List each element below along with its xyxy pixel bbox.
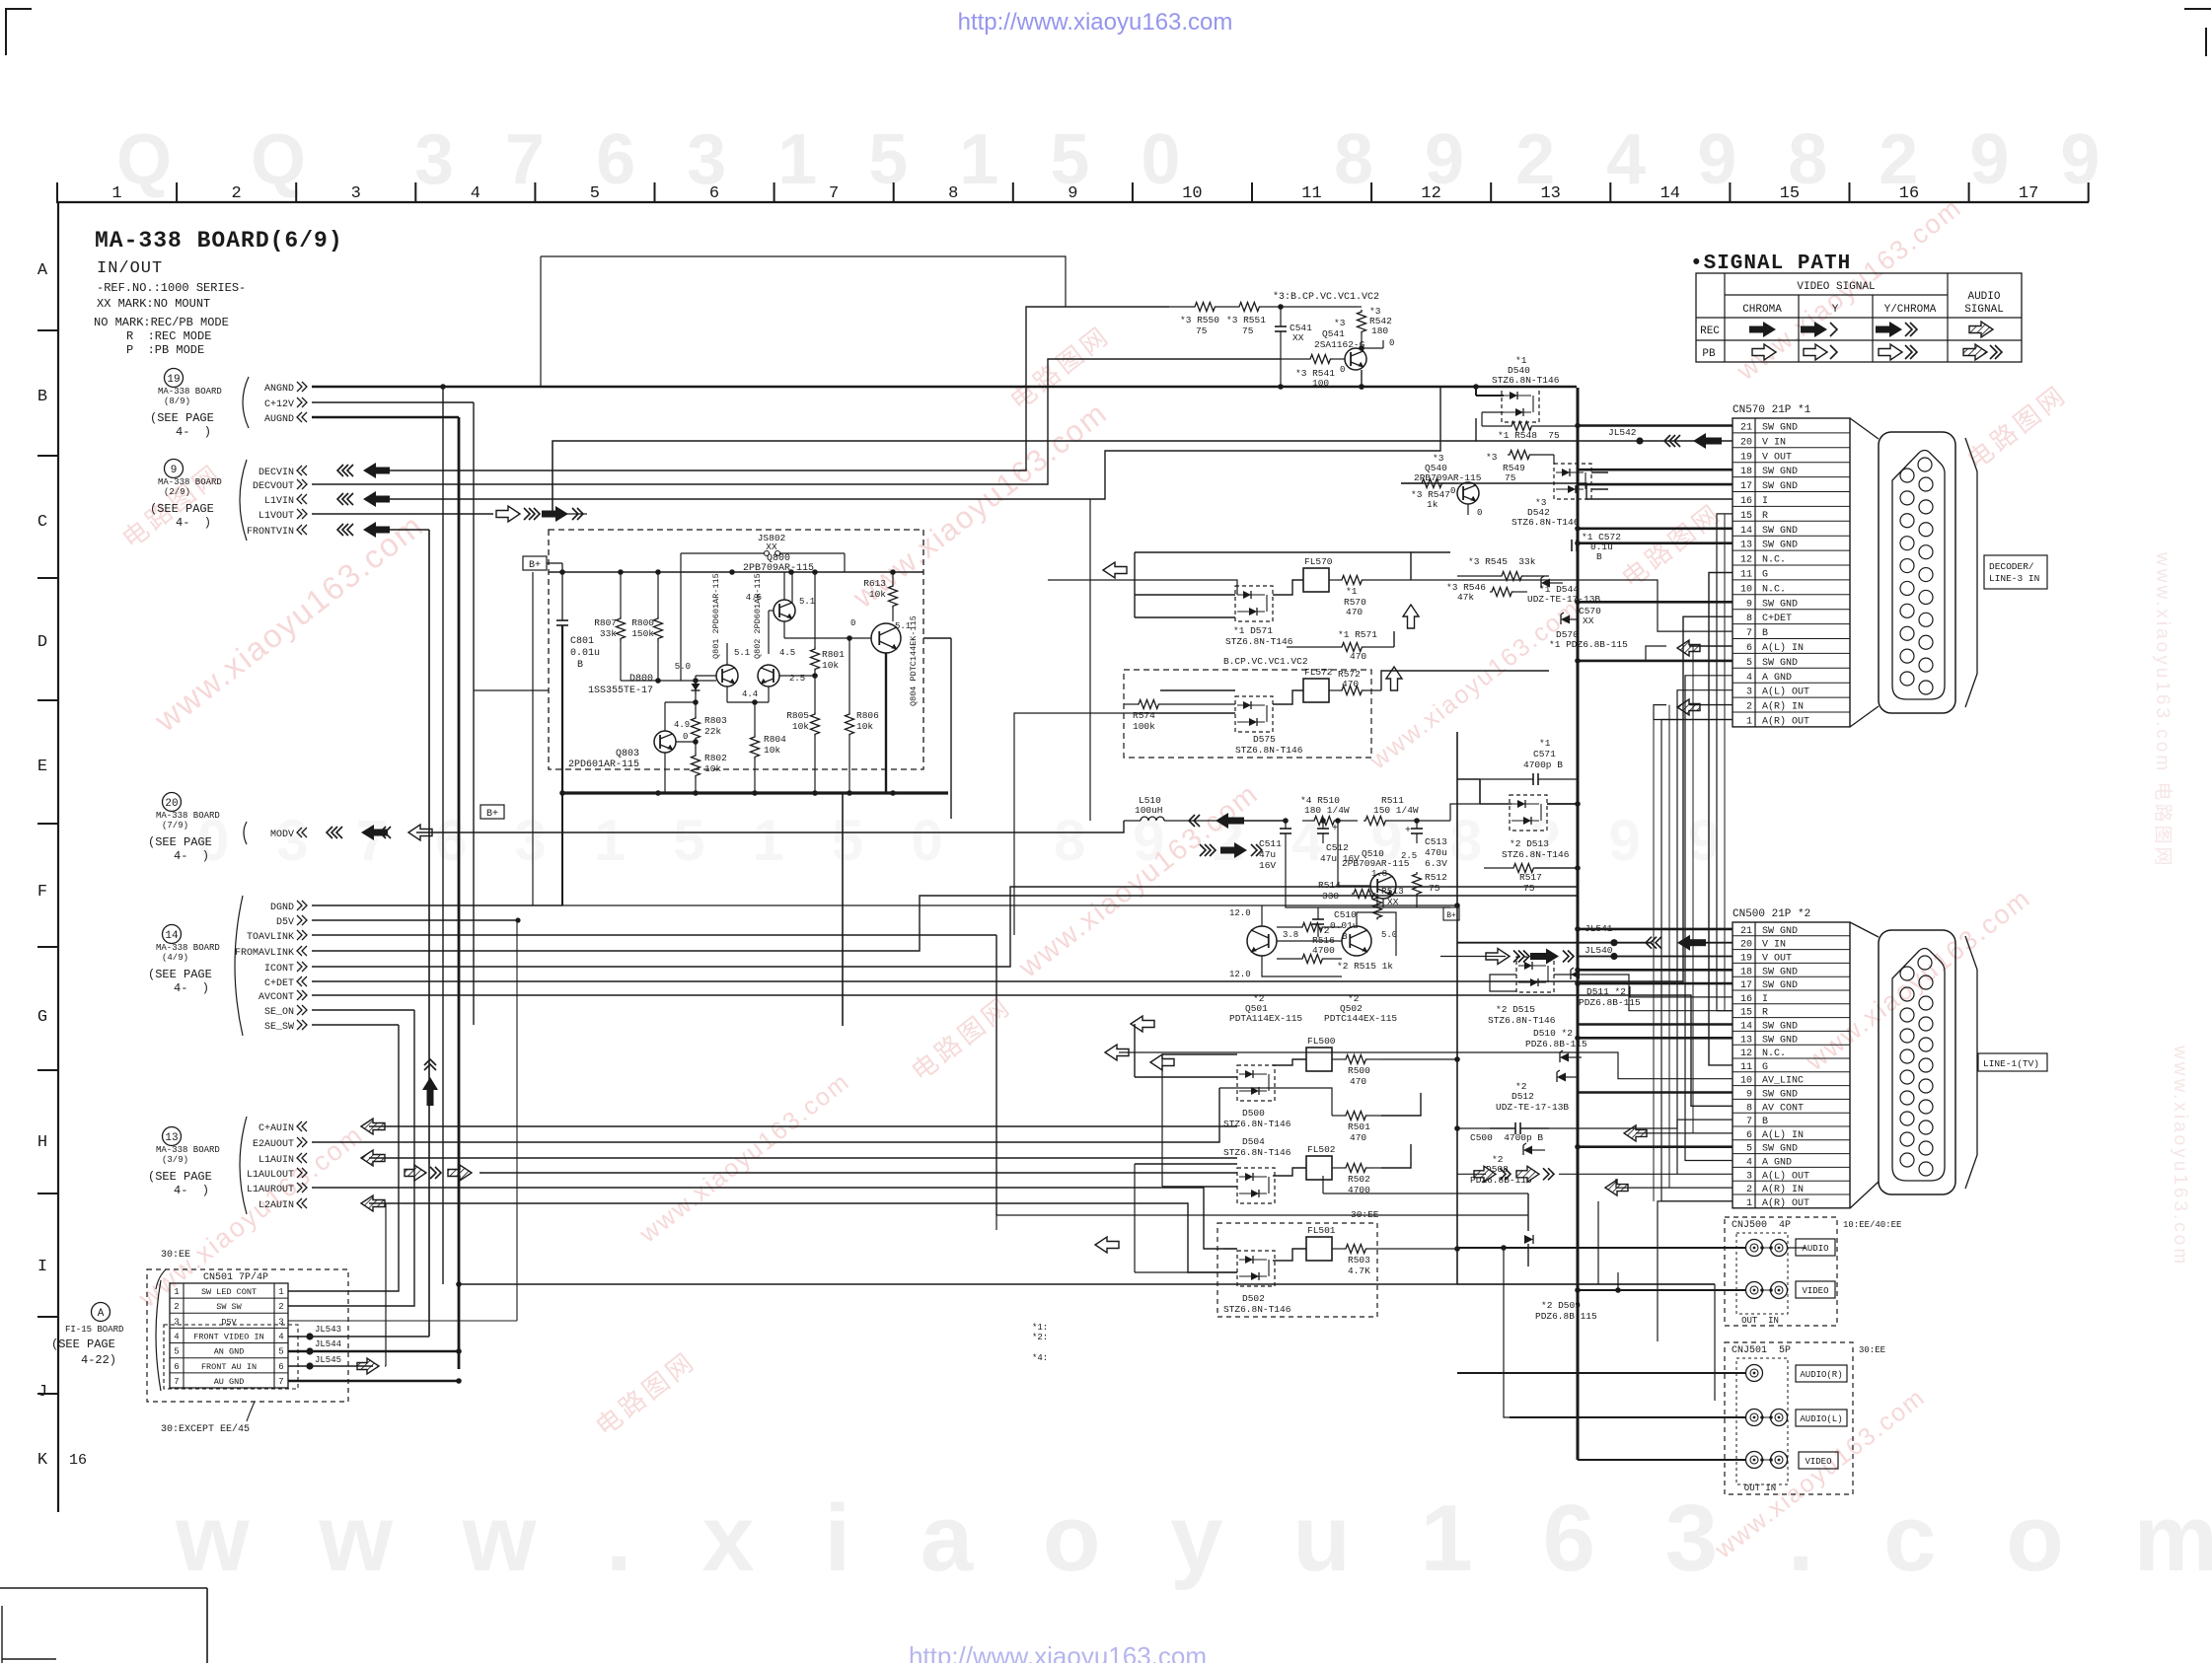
wire D513 right (1547, 803, 1578, 805)
svg-text:(SEE PAGE: (SEE PAGE (150, 502, 214, 516)
node ANGND (264, 382, 307, 395)
wire hatch arrow ARIN500 (1605, 1180, 1628, 1195)
node Q541 label (1314, 318, 1365, 350)
svg-text:SW GND: SW GND (1762, 541, 1798, 551)
transistor Q540 (1457, 482, 1482, 518)
wire Q510 em (1382, 899, 1384, 907)
transistor Q803 (568, 731, 676, 770)
wire CN570 stub 491.1 (1578, 483, 1733, 486)
svg-text:http://www.xiaoyu163.com: http://www.xiaoyu163.com (958, 9, 1233, 36)
svg-text:E2AUOUT: E2AUOUT (253, 1139, 294, 1150)
svg-text:FI-15 BOARD: FI-15 BOARD (65, 1325, 123, 1335)
wire FL501 in2 (1135, 1271, 1237, 1273)
svg-text:SE_ON: SE_ON (264, 1007, 294, 1018)
capacitor C512 (1317, 821, 1360, 864)
svg-text:B: B (1596, 551, 1602, 562)
svg-text:SW GND: SW GND (1762, 599, 1798, 610)
svg-text:5: 5 (174, 1347, 179, 1357)
resistor R515 (1277, 955, 1342, 964)
wire R501 line (1219, 1088, 1332, 1116)
wire Q510 base in (1338, 821, 1370, 886)
wire v x854 (842, 793, 844, 1026)
svg-text:D504: D504 (1242, 1136, 1265, 1147)
wire CN570 stub 431.5 (1578, 424, 1733, 427)
svg-text:STZ6.8N-T146: STZ6.8N-T146 (1235, 745, 1303, 756)
svg-text:C+DET: C+DET (1762, 614, 1792, 624)
svg-text:SW LED CONT: SW LED CONT (201, 1287, 257, 1297)
svg-text:1SS355TE-17: 1SS355TE-17 (588, 686, 653, 696)
svg-text:17: 17 (1740, 980, 1752, 991)
inductor L510 (1124, 795, 1223, 821)
wire CNJ bus drop1 (1504, 1248, 1510, 1417)
wire CN500 SWGND5 link (1457, 1127, 1490, 1129)
svg-text:75: 75 (1505, 472, 1516, 483)
node group 13 header (148, 1127, 220, 1198)
resistor R542 (1358, 306, 1393, 351)
wire FL572 in2 (1135, 712, 1235, 714)
svg-text:C+DET: C+DET (264, 978, 294, 989)
svg-text:FRONT VIDEO IN: FRONT VIDEO IN (193, 1333, 263, 1342)
node L1AUROUT (247, 1183, 307, 1195)
svg-text:2PD601AR-115: 2PD601AR-115 (568, 759, 639, 770)
node group 20 header (148, 793, 220, 864)
wire FL501 link (1273, 1249, 1306, 1261)
svg-text:*3: *3 (1334, 318, 1346, 328)
svg-text:100k: 100k (1133, 721, 1155, 732)
svg-text:JL545: JL545 (315, 1355, 341, 1365)
svg-text:w w w . x i a o y u 1 6 3 . c: w w w . x i a o y u 1 6 3 . c o m (175, 1485, 2212, 1591)
svg-text:12: 12 (1421, 184, 1440, 203)
svg-text:30:EXCEPT EE/45: 30:EXCEPT EE/45 (161, 1423, 250, 1435)
svg-text:5: 5 (278, 1347, 283, 1357)
wire R501 out (1381, 1093, 1421, 1116)
wire CN500 ALOUT left (1457, 1173, 1486, 1175)
svg-text:NO MARK:REC/PB MODE: NO MARK:REC/PB MODE (94, 316, 229, 329)
node left ruler (37, 202, 58, 1512)
wire CN500 ARIN left (1578, 1171, 1593, 1173)
svg-text:L1AUROUT: L1AUROUT (247, 1185, 294, 1195)
svg-text:180 1/4W: 180 1/4W (1304, 805, 1350, 816)
node bracket 9 (240, 460, 247, 541)
wire FL572 in1 (1160, 689, 1235, 691)
svg-text:*1 R548 75: *1 R548 75 (1498, 430, 1560, 441)
svg-text:22k: 22k (704, 726, 721, 737)
svg-text:15: 15 (1780, 184, 1800, 203)
svg-text:(SEE PAGE: (SEE PAGE (148, 835, 212, 849)
wire CN500 ALOUT stub (1559, 1173, 1733, 1175)
svg-text:C510: C510 (1334, 909, 1357, 920)
node corner marks (5, 9, 2211, 56)
svg-text:10k: 10k (822, 660, 839, 671)
svg-text:(8/9): (8/9) (164, 397, 190, 406)
svg-text:*2 D509: *2 D509 (1541, 1300, 1581, 1311)
filter FL500 (1306, 1036, 1336, 1071)
svg-text:10: 10 (1740, 1076, 1752, 1087)
svg-text:8 9 2 4 9 8 2 9 9: 8 9 2 4 9 8 2 9 9 (1334, 120, 2115, 199)
wire JL542 line (553, 418, 1476, 514)
wire CN500 V OUT stub (1578, 956, 1733, 958)
svg-text:C801: C801 (570, 636, 594, 647)
node C+DET (264, 976, 307, 989)
connector CN501 (147, 1250, 348, 1435)
svg-text:A(L) IN: A(L) IN (1762, 1129, 1804, 1141)
svg-text:0: 0 (1477, 508, 1482, 518)
svg-text:V OUT: V OUT (1762, 452, 1792, 463)
wire inter vert 2 (1653, 720, 1655, 1201)
svg-text:19: 19 (167, 374, 180, 386)
wire L1VIN arrow (337, 491, 390, 507)
wire v x548 link (540, 256, 542, 387)
svg-text:SIGNAL: SIGNAL (1964, 304, 2004, 316)
wire CN500 stub 1038.5 (1578, 1023, 1733, 1026)
wire FRONTVIN arrow (337, 522, 390, 538)
wire CN500 ARIN stub (1616, 1179, 1733, 1188)
svg-text:R613: R613 (863, 578, 886, 589)
svg-text:12.0: 12.0 (1229, 908, 1251, 918)
svg-text:30:EE: 30:EE (1859, 1345, 1885, 1355)
svg-text:FL570: FL570 (1304, 556, 1333, 567)
wire B gnd down (561, 793, 563, 819)
wire x1010 trunk (995, 935, 997, 1215)
svg-text:6.3V: 6.3V (1425, 858, 1447, 869)
svg-text:1: 1 (174, 1287, 179, 1297)
wire inter vert 1 (1668, 705, 1670, 1189)
svg-text:VIDEO SIGNAL: VIDEO SIGNAL (1797, 281, 1875, 293)
wire vert x1150 c (1134, 1164, 1136, 1272)
svg-text:7: 7 (829, 184, 839, 203)
svg-text:FL572: FL572 (1304, 667, 1333, 678)
svg-text:10k: 10k (704, 763, 721, 774)
node E2AUOUT (253, 1137, 307, 1150)
wire Q801 Q802 links (696, 643, 818, 705)
svg-text:*1: *1 (1346, 586, 1358, 597)
wire CN501 r3 link (288, 1320, 517, 1322)
svg-text:Y: Y (1832, 304, 1839, 316)
svg-text:5: 5 (590, 184, 600, 203)
svg-text:http://www.xiaoyu163.com: http://www.xiaoyu163.com (909, 1641, 1207, 1663)
svg-text:470: 470 (1350, 1132, 1366, 1143)
wire L2AUIN run (369, 1203, 1237, 1272)
wire CNJ500 audio out wire (1457, 1247, 1745, 1249)
resistor R513 (1373, 886, 1405, 919)
svg-text:J: J (37, 1383, 47, 1402)
svg-text:5.0: 5.0 (1381, 930, 1397, 940)
node star notes (1032, 1323, 1048, 1363)
wire VOUT500 arrows (1486, 949, 1574, 965)
wire misc h2 (1457, 1283, 1715, 1285)
svg-text:11: 11 (1740, 1062, 1752, 1073)
node L1VIN (264, 494, 307, 507)
svg-text:0.01u: 0.01u (570, 648, 600, 659)
wire trunk x435 FRONTVIN (428, 530, 430, 1337)
svg-text:16V: 16V (1259, 860, 1276, 871)
wire VIN500 arrow (1646, 935, 1706, 951)
svg-text:DGND: DGND (270, 903, 294, 913)
svg-text:R: R (1762, 511, 1768, 522)
wire R517 link (1484, 867, 1512, 869)
svg-text:2.5: 2.5 (789, 674, 805, 684)
node L1VOUT (258, 509, 307, 522)
wire R572 out (1381, 671, 1549, 690)
svg-text:LINE-1(TV): LINE-1(TV) (1983, 1058, 2039, 1069)
wire C+AUIN run2 (369, 1125, 1237, 1127)
svg-text:16: 16 (1899, 184, 1919, 203)
node ANGND junctions (440, 384, 1479, 390)
wire open left arrow row H (1131, 1016, 1154, 1032)
wire h y260 link (541, 256, 1066, 307)
wire hatch arrow ALIN570 (1677, 640, 1700, 656)
svg-text:7: 7 (278, 1377, 283, 1387)
svg-text:10:EE/40:EE: 10:EE/40:EE (1843, 1220, 1901, 1230)
node CN501 junctions (456, 1348, 462, 1384)
svg-text:(3/9): (3/9) (162, 1155, 188, 1165)
wire FL502 in2 (1162, 1186, 1237, 1188)
wire left open arrow FL500 (1150, 1054, 1174, 1070)
resistor R613 (863, 572, 897, 621)
wire SE_SW run (312, 1024, 399, 1026)
wire Q541 emitter (1359, 370, 1364, 390)
svg-text:75: 75 (1429, 883, 1440, 894)
svg-text:17: 17 (1740, 481, 1752, 492)
filter FL572 (1303, 667, 1333, 702)
svg-text:C+AUIN: C+AUIN (258, 1123, 294, 1134)
wire FL570 in2 (1135, 616, 1235, 618)
svg-text:0: 0 (850, 618, 855, 628)
svg-text:SW GND: SW GND (1762, 467, 1798, 477)
wire vert x1599 trunk (1577, 388, 1580, 1460)
resistor R503 (1332, 1245, 1381, 1277)
node 12.0 annotations (1229, 908, 1397, 979)
wire CN570 G stub (1709, 573, 1733, 1065)
wire ANGND bus (312, 386, 1577, 389)
svg-text:15: 15 (1740, 1008, 1752, 1019)
svg-text:STZ6.8N-T146: STZ6.8N-T146 (1492, 375, 1560, 386)
svg-text:4: 4 (471, 184, 480, 203)
svg-text:SW GND: SW GND (1762, 481, 1798, 492)
svg-text:A(R) OUT: A(R) OUT (1762, 715, 1809, 727)
resistor R805 (786, 686, 819, 793)
node LINE-1(TV) label (1978, 1053, 2047, 1071)
svg-text:13: 13 (1540, 184, 1560, 203)
power B+ bottom (480, 805, 504, 820)
wire hatch arrow ARIN570 (1677, 699, 1700, 715)
svg-text:8: 8 (1746, 1103, 1752, 1114)
diode D511 (1571, 968, 1641, 1008)
svg-text:A(L) OUT: A(L) OUT (1762, 687, 1809, 698)
wire R516 line2 (1324, 926, 1342, 928)
svg-text:180: 180 (1371, 325, 1388, 336)
wire R503 out (1381, 1248, 1457, 1250)
node JL543 (306, 1325, 341, 1340)
node group 9 header (150, 460, 222, 531)
wire CN500 AVLINC stub (1119, 1052, 1733, 1079)
svg-text:MA-338 BOARD: MA-338 BOARD (156, 811, 220, 821)
svg-text:8: 8 (948, 184, 958, 203)
wire ALOUT500 arrows (1474, 1166, 1554, 1182)
wire V IN 570 line (1476, 440, 1733, 442)
svg-text:DECVIN: DECVIN (258, 468, 294, 478)
wire CN570 ALIN stub (1689, 645, 1733, 647)
svg-text:CNJ500 4P: CNJ500 4P (1732, 1220, 1791, 1231)
node bracket 20 (244, 822, 247, 844)
svg-text:CN501 7P/4P: CN501 7P/4P (203, 1271, 268, 1283)
svg-text:9: 9 (1746, 1090, 1752, 1101)
wire DGND up (561, 795, 563, 905)
svg-text:UDZ-TE-17-13B: UDZ-TE-17-13B (1496, 1102, 1569, 1113)
node DECVOUT (253, 479, 307, 492)
node group 19 header (150, 369, 222, 440)
svg-text:0 3 7 6 3 1 5 1 5 0 8 9 2 4: 0 3 7 6 3 1 5 1 5 0 8 9 2 4 9 8 2 9 9 (197, 809, 1735, 873)
svg-text:14: 14 (1660, 184, 1680, 203)
svg-text:C+12V: C+12V (264, 399, 294, 410)
svg-text:L1VOUT: L1VOUT (258, 511, 294, 522)
svg-text:MA-338 BOARD: MA-338 BOARD (156, 943, 220, 953)
node AUGND (264, 412, 307, 425)
resistor R516 (1300, 923, 1324, 932)
svg-text:Q802 2PD601AR-115: Q802 2PD601AR-115 (753, 573, 763, 659)
svg-text:3: 3 (1746, 687, 1752, 698)
svg-text:G: G (37, 1008, 47, 1027)
svg-text:R :REC MODE: R :REC MODE (126, 329, 211, 343)
transistor Q804 (871, 615, 919, 706)
capacitor C571 (1480, 738, 1578, 785)
wire trunk x524 D5V (516, 920, 518, 1321)
node L1AUIN (258, 1153, 307, 1166)
svg-text:N.C.: N.C. (1762, 584, 1786, 595)
wire open left arrow row C (1103, 562, 1127, 578)
svg-text:6: 6 (1746, 1130, 1752, 1141)
svg-text:13: 13 (1740, 1035, 1752, 1046)
wire CN570 ALOUT stub (1677, 690, 1733, 1175)
diode D509 (1524, 1215, 1597, 1322)
filter FL501 (1306, 1225, 1336, 1261)
capacitor C511 (1259, 821, 1291, 878)
resistor R548 (1482, 422, 1577, 442)
wire bias gnd rail (559, 790, 948, 796)
wire vert x1150 a (1134, 552, 1136, 617)
wire left open arrow FL501row (1095, 1237, 1119, 1253)
svg-text:6: 6 (1746, 643, 1752, 654)
svg-text:D5V: D5V (276, 917, 294, 928)
svg-text:D5V: D5V (221, 1317, 237, 1327)
wire CN500 stub 1162.7 (1578, 1145, 1733, 1148)
svg-text:9: 9 (1746, 599, 1752, 610)
svg-text:A: A (37, 261, 48, 280)
svg-text:10: 10 (1182, 184, 1202, 203)
svg-text:www.xiaoyu163.com 电路图网: www.xiaoyu163.com 电路图网 (2152, 551, 2174, 868)
wire D515 out (1554, 974, 1575, 976)
node Q510 labels (1342, 848, 1410, 879)
svg-text:ICONT: ICONT (264, 964, 294, 975)
connector CN500 SCART (1850, 922, 1977, 1208)
svg-text:D575: D575 (1253, 734, 1276, 745)
wire vert x1178 (1161, 1054, 1163, 1187)
svg-text:TOAVLINK: TOAVLINK (247, 932, 294, 943)
svg-text:12: 12 (1740, 555, 1752, 566)
svg-text:STZ6.8N-T146: STZ6.8N-T146 (1225, 636, 1293, 647)
svg-text:•SIGNAL PATH: •SIGNAL PATH (1690, 253, 1851, 275)
svg-text:A GND: A GND (1762, 1158, 1792, 1169)
svg-text:R807: R807 (594, 617, 617, 628)
wire VIN570 arrow (1664, 433, 1722, 449)
svg-text:1: 1 (1746, 716, 1752, 727)
wire DECVOUT run (312, 359, 1281, 484)
wire CN570 AGND stub (1685, 676, 1733, 1161)
wire CN501 r6 link2 (385, 1365, 386, 1367)
svg-text:OUT IN: OUT IN (1741, 1316, 1779, 1326)
svg-text:R801: R801 (822, 649, 845, 660)
svg-text:21: 21 (1740, 422, 1752, 433)
capacitor C801 (556, 572, 600, 793)
svg-text:D510 *2: D510 *2 (1533, 1028, 1573, 1039)
diode D515 pack (1488, 957, 1556, 1026)
node D504 labels (1223, 1136, 1291, 1158)
svg-text:7: 7 (1746, 1117, 1752, 1127)
resistor R541 (1281, 355, 1345, 390)
node modv junctions (1283, 818, 1420, 824)
wire bias box left in (474, 689, 549, 691)
svg-text:12.0: 12.0 (1229, 970, 1251, 979)
svg-text:0: 0 (1450, 486, 1455, 496)
node CN570 stub dots (1575, 423, 1581, 664)
node top ruler (56, 182, 2089, 203)
wire DECVIN arrow (337, 463, 390, 478)
node bias dashed box (549, 530, 923, 769)
svg-text:4- ): 4- ) (176, 516, 211, 530)
wire bias out to right (923, 637, 951, 639)
svg-text:(2/9): (2/9) (164, 487, 190, 497)
svg-text:2: 2 (278, 1302, 283, 1312)
node B+ small mid (1443, 907, 1459, 920)
node bracket 14 (235, 896, 243, 1036)
svg-text:75: 75 (1196, 325, 1208, 336)
svg-text:R500: R500 (1348, 1065, 1370, 1076)
svg-text:SW GND: SW GND (1762, 526, 1798, 537)
svg-text:VIDEO: VIDEO (1802, 1286, 1828, 1296)
wire misc v1 (1597, 1201, 1599, 1284)
wire R511 to D513 (1450, 804, 1480, 821)
svg-text:*4:: *4: (1032, 1353, 1048, 1363)
svg-text:2.5: 2.5 (1401, 851, 1417, 861)
capacitor C570 (1561, 606, 1601, 626)
wire CN501 r4 link (288, 1336, 429, 1338)
svg-text:*1 PDZ6.8B-115: *1 PDZ6.8B-115 (1549, 639, 1628, 650)
node board title (95, 228, 343, 278)
transistor Q541 (1345, 338, 1394, 370)
svg-text:G: G (1762, 1062, 1768, 1073)
svg-text:IN/OUT: IN/OUT (97, 259, 163, 278)
svg-text:PDZ6.8B-115: PDZ6.8B-115 (1535, 1311, 1597, 1322)
wire CN501 r6 up (385, 1203, 387, 1366)
diode D508 (1470, 1143, 1545, 1186)
wire misc h1b (1323, 1193, 1528, 1194)
svg-text:*2 D513: *2 D513 (1510, 838, 1549, 849)
svg-text:R802: R802 (704, 753, 727, 763)
diode D570 (1549, 629, 1628, 650)
svg-text:4- ): 4- ) (176, 425, 211, 439)
svg-text:16: 16 (69, 1452, 87, 1469)
node D542 labels (1512, 497, 1580, 528)
svg-text:F: F (37, 883, 47, 902)
svg-text:470: 470 (1350, 651, 1366, 662)
wire CNJ501 video wire (1578, 1459, 1745, 1461)
wire CN570 R stub (1717, 514, 1733, 1011)
diode D510 (1525, 1028, 1587, 1062)
svg-text:4.5: 4.5 (779, 648, 795, 658)
svg-text:Q801 2PD601AR-115: Q801 2PD601AR-115 (711, 573, 721, 659)
svg-text:5: 5 (1746, 1144, 1752, 1155)
svg-text:L1VIN: L1VIN (264, 496, 294, 507)
